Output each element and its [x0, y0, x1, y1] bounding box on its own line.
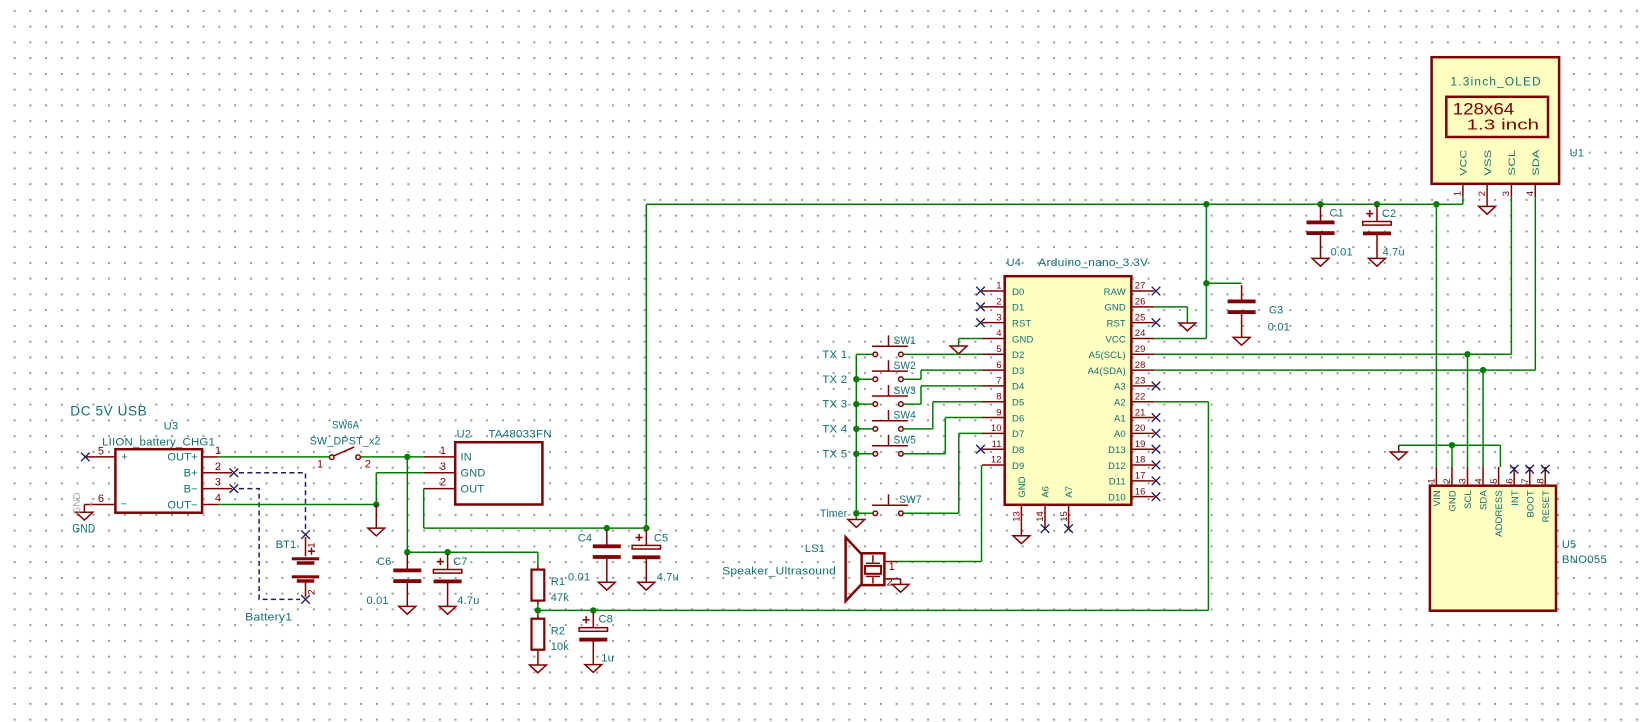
svg-text:D1: D1 [1012, 303, 1024, 314]
svg-text:2: 2 [215, 461, 221, 473]
svg-text:D3: D3 [1012, 366, 1024, 377]
svg-text:GND: GND [72, 492, 83, 514]
svg-text:SW7: SW7 [899, 494, 922, 506]
svg-text:6: 6 [98, 493, 104, 505]
svg-text:1.3inch_OLED: 1.3inch_OLED [1451, 77, 1542, 89]
svg-text:Battery1: Battery1 [245, 612, 292, 624]
svg-text:−: − [121, 499, 128, 511]
svg-text:6: 6 [1504, 478, 1515, 483]
svg-text:1: 1 [1427, 478, 1438, 483]
svg-text:SDA: SDA [1479, 490, 1490, 510]
svg-text:10: 10 [991, 423, 1002, 434]
svg-text:D5: D5 [1012, 398, 1024, 409]
svg-text:C5: C5 [654, 533, 668, 545]
svg-text:OUT: OUT [461, 483, 485, 495]
svg-text:28: 28 [1135, 360, 1146, 371]
svg-text:SCL: SCL [1507, 150, 1518, 176]
svg-text:10k: 10k [551, 641, 570, 653]
svg-text:18: 18 [1135, 455, 1146, 466]
svg-text:4: 4 [996, 328, 1001, 339]
svg-text:C6: C6 [377, 556, 391, 568]
svg-text:BOOT: BOOT [1525, 490, 1536, 517]
svg-text:13: 13 [1012, 511, 1023, 522]
svg-text:A3: A3 [1114, 382, 1126, 393]
svg-text:GND: GND [1012, 334, 1033, 345]
svg-text:SW3: SW3 [894, 385, 917, 397]
svg-text:1: 1 [440, 445, 446, 457]
svg-text:23: 23 [1135, 376, 1146, 387]
svg-text:D10: D10 [1108, 492, 1126, 503]
svg-text:SW_DPST_x2: SW_DPST_x2 [310, 436, 381, 448]
svg-text:LIION_battery_CHG1: LIION_battery_CHG1 [102, 437, 215, 449]
svg-text:4.7u: 4.7u [1383, 247, 1405, 259]
svg-text:Speaker_Ultrasound: Speaker_Ultrasound [722, 566, 836, 578]
svg-text:1: 1 [1453, 191, 1464, 196]
svg-text:16: 16 [1135, 486, 1146, 497]
svg-text:RESET: RESET [1541, 490, 1552, 522]
svg-text:8: 8 [996, 391, 1001, 402]
svg-text:1.3 inch: 1.3 inch [1467, 117, 1540, 134]
svg-text:D6: D6 [1012, 413, 1024, 424]
svg-text:0.01: 0.01 [568, 572, 590, 584]
svg-text:TX 3: TX 3 [822, 399, 847, 411]
svg-text:D7: D7 [1012, 429, 1024, 440]
svg-text:6: 6 [996, 360, 1001, 371]
svg-text:U3: U3 [164, 421, 178, 433]
svg-text:SW6A: SW6A [332, 420, 359, 432]
svg-text:19: 19 [1135, 439, 1146, 450]
svg-text:4.7u: 4.7u [457, 595, 479, 607]
svg-text:GND: GND [461, 468, 486, 480]
svg-text:14: 14 [1035, 511, 1046, 522]
svg-text:2: 2 [365, 458, 371, 470]
svg-text:0.01: 0.01 [367, 595, 389, 607]
svg-text:TX 5: TX 5 [822, 448, 847, 460]
svg-text:3: 3 [1458, 478, 1469, 483]
svg-text:1: 1 [889, 561, 895, 573]
svg-text:SW1: SW1 [894, 335, 917, 347]
svg-text:29: 29 [1135, 344, 1146, 355]
svg-text:RST: RST [1106, 318, 1125, 329]
svg-text:24: 24 [1135, 328, 1146, 339]
svg-text:D8: D8 [1012, 445, 1024, 456]
svg-text:C2: C2 [1382, 208, 1396, 220]
svg-text:OUT+: OUT+ [167, 452, 197, 464]
svg-text:0.01: 0.01 [1331, 247, 1353, 259]
svg-text:Arduino_nano_3.3V: Arduino_nano_3.3V [1038, 257, 1148, 269]
svg-text:SW2: SW2 [894, 360, 917, 372]
svg-text:BNO055: BNO055 [1562, 554, 1607, 566]
svg-text:1: 1 [215, 445, 221, 457]
svg-text:2: 2 [440, 477, 446, 489]
svg-text:A7: A7 [1064, 486, 1075, 498]
svg-text:2: 2 [1477, 191, 1488, 196]
svg-text:D4: D4 [1012, 382, 1024, 393]
svg-text:3: 3 [996, 312, 1001, 323]
svg-text:27: 27 [1135, 281, 1146, 292]
svg-text:D13: D13 [1108, 445, 1126, 456]
svg-text:12: 12 [991, 455, 1002, 466]
svg-text:TA48033FN: TA48033FN [488, 429, 551, 441]
svg-text:VCC: VCC [1105, 334, 1125, 345]
svg-text:C1: C1 [1330, 208, 1344, 220]
svg-text:GND: GND [1448, 490, 1459, 511]
svg-text:1: 1 [996, 281, 1001, 292]
svg-text:5: 5 [1489, 478, 1500, 483]
svg-text:A0: A0 [1114, 429, 1126, 440]
svg-text:4: 4 [1525, 191, 1536, 196]
svg-text:D11: D11 [1109, 477, 1126, 488]
svg-text:ADDRESS: ADDRESS [1494, 490, 1505, 537]
svg-text:D12: D12 [1108, 461, 1126, 472]
svg-text:22: 22 [1135, 391, 1146, 402]
svg-text:OUT−: OUT− [167, 499, 197, 511]
svg-text:SCL: SCL [1463, 490, 1474, 509]
svg-text:20: 20 [1135, 423, 1146, 434]
svg-text:INT: INT [1510, 490, 1521, 506]
svg-text:U5: U5 [1562, 539, 1576, 551]
svg-text:BT1: BT1 [276, 539, 297, 551]
svg-text:RAW: RAW [1104, 287, 1126, 298]
svg-text:7: 7 [996, 376, 1001, 387]
svg-text:+: + [121, 452, 128, 464]
svg-text:1: 1 [317, 458, 323, 470]
svg-text:B+: B+ [184, 468, 198, 480]
svg-text:11: 11 [992, 439, 1002, 450]
svg-text:2: 2 [996, 297, 1001, 308]
svg-text:1u: 1u [601, 653, 614, 665]
svg-text:D0: D0 [1012, 287, 1024, 298]
svg-text:B−: B− [184, 483, 198, 495]
svg-text:U2: U2 [457, 429, 471, 441]
svg-text:3: 3 [440, 461, 446, 473]
svg-text:R2: R2 [551, 626, 565, 638]
svg-text:VSS: VSS [1483, 150, 1494, 176]
svg-text:3: 3 [1501, 191, 1512, 196]
svg-text:C7: C7 [453, 556, 467, 568]
svg-text:U4: U4 [1007, 257, 1021, 269]
svg-text:VIN: VIN [1432, 490, 1443, 506]
svg-text:1: 1 [307, 543, 318, 548]
svg-text:A1: A1 [1114, 413, 1126, 424]
svg-text:A4(SDA): A4(SDA) [1088, 366, 1126, 377]
svg-text:VCC: VCC [1459, 150, 1470, 176]
svg-text:IN: IN [461, 452, 472, 464]
svg-text:TX 4: TX 4 [822, 424, 847, 436]
svg-text:R1: R1 [551, 576, 565, 588]
svg-text:U1: U1 [1570, 147, 1584, 159]
svg-text:7: 7 [1520, 478, 1531, 483]
svg-text:A5(SCL): A5(SCL) [1089, 350, 1126, 361]
svg-text:17: 17 [1135, 471, 1146, 482]
svg-text:25: 25 [1135, 312, 1146, 323]
svg-text:D9: D9 [1012, 461, 1024, 472]
svg-text:LS1: LS1 [805, 543, 825, 555]
svg-text:RST: RST [1012, 318, 1031, 329]
svg-text:47k: 47k [551, 592, 570, 604]
svg-text:4.7u: 4.7u [657, 572, 679, 584]
svg-text:A2: A2 [1114, 398, 1126, 409]
svg-text:9: 9 [996, 407, 1001, 418]
svg-text:SW4: SW4 [894, 410, 917, 422]
svg-text:DC 5V USB: DC 5V USB [70, 403, 147, 419]
svg-text:A6: A6 [1041, 486, 1052, 498]
svg-text:15: 15 [1059, 511, 1070, 522]
svg-text:2: 2 [307, 590, 318, 595]
svg-text:TX 1: TX 1 [822, 349, 847, 361]
svg-text:C3: C3 [1269, 305, 1283, 317]
svg-text:D2: D2 [1012, 350, 1024, 361]
svg-text:0.01: 0.01 [1268, 322, 1290, 334]
svg-text:GND: GND [1017, 476, 1028, 497]
svg-text:8: 8 [1535, 478, 1546, 483]
svg-text:C4: C4 [578, 533, 592, 545]
svg-text:26: 26 [1135, 297, 1146, 308]
svg-text:4: 4 [215, 493, 221, 505]
svg-text:TX 2: TX 2 [822, 374, 847, 386]
svg-text:C8: C8 [599, 614, 613, 626]
svg-text:GND: GND [1104, 303, 1125, 314]
svg-text:5: 5 [996, 344, 1001, 355]
svg-text:Timer: Timer [820, 508, 847, 520]
svg-text:GND: GND [72, 522, 95, 536]
svg-text:3: 3 [215, 477, 221, 489]
svg-text:4: 4 [1473, 478, 1484, 483]
svg-text:2: 2 [1442, 478, 1453, 483]
svg-text:SDA: SDA [1531, 149, 1542, 176]
svg-text:2: 2 [887, 577, 893, 589]
svg-text:SW5: SW5 [894, 435, 917, 447]
svg-text:21: 21 [1135, 407, 1146, 418]
svg-text:5: 5 [98, 445, 104, 457]
